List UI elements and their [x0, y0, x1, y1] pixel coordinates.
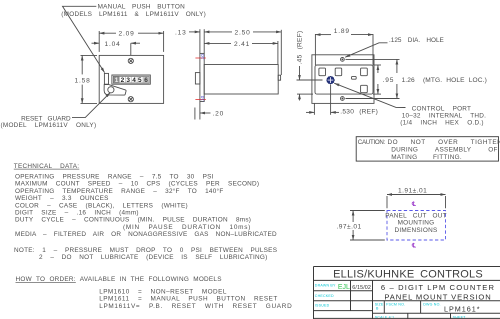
svg-text:MEDIA – FILTERED AIR OR NONAGG: MEDIA – FILTERED AIR OR NONAGGRESSIVE GA…: [15, 231, 277, 238]
svg-text:1.04: 1.04: [105, 41, 121, 48]
svg-text:B: B: [376, 306, 379, 310]
svg-text:DRAWN BY: DRAWN BY: [315, 284, 336, 288]
svg-text:6 – DIGIT LPM COUNTER: 6 – DIGIT LPM COUNTER: [381, 283, 495, 292]
svg-text:3: 3: [126, 77, 130, 84]
svg-text:.95: .95: [383, 77, 395, 84]
svg-text:COLOR – CASE (BLACK), LETTERS: COLOR – CASE (BLACK), LETTERS (WHITE): [15, 202, 188, 209]
svg-text:(1/4 INCH HEX O.D.): (1/4 INCH HEX O.D.): [400, 119, 483, 126]
svg-text:6/15/02: 6/15/02: [352, 285, 371, 291]
svg-text:MANUAL PUSH BUTTON: MANUAL PUSH BUTTON: [98, 4, 185, 11]
svg-text:DURING ASSEMBLY OF: DURING ASSEMBLY OF: [391, 146, 498, 153]
svg-text:OPERATING PRESSURE RANGE – 7.5: OPERATING PRESSURE RANGE – 7.5 TO 30 PSI: [15, 174, 214, 181]
svg-text:.125 DIA. HOLE: .125 DIA. HOLE: [389, 37, 444, 44]
svg-text:LPM1610 = NON–RESET MODEL: LPM1610 = NON–RESET MODEL: [99, 288, 227, 295]
svg-text:DIGIT SIZE – .16 INCH (4mm): DIGIT SIZE – .16 INCH (4mm): [15, 210, 139, 217]
svg-text:10–32 INTERNAL THD.: 10–32 INTERNAL THD.: [402, 112, 486, 119]
svg-text:2 – DO NOT LUBRICATE (DEVICE I: 2 – DO NOT LUBRICATE (DEVICE IS SELF LUB…: [39, 254, 267, 261]
svg-text:.13: .13: [175, 29, 187, 36]
svg-text:4: 4: [132, 77, 136, 84]
svg-text:PANEL CUT OUT: PANEL CUT OUT: [385, 213, 447, 220]
svg-text:1.89: 1.89: [334, 28, 350, 35]
svg-text:6: 6: [144, 77, 148, 84]
svg-text:MOUNTING: MOUNTING: [398, 220, 435, 227]
svg-text:TECHNICAL DATA:: TECHNICAL DATA:: [14, 163, 79, 170]
svg-text:(MIN PAUSE DURATION 10ms): (MIN PAUSE DURATION 10ms): [123, 224, 251, 231]
svg-text:2.09: 2.09: [119, 31, 135, 38]
svg-text:DUTY CYCLE – CONTINUOUS (MIN.: DUTY CYCLE – CONTINUOUS (MIN. PULSE DURA…: [15, 217, 251, 224]
svg-text:PANEL MOUNT VERSION: PANEL MOUNT VERSION: [384, 293, 491, 302]
svg-text:MATING FITTING.: MATING FITTING.: [391, 154, 462, 161]
svg-text:CHECKED: CHECKED: [315, 294, 334, 298]
svg-text:(MODELS LPM1611 & LPM1611V ONL: (MODELS LPM1611 & LPM1611V ONLY): [61, 11, 206, 18]
svg-text:ELLIS/KUHNKE CONTROLS: ELLIS/KUHNKE CONTROLS: [333, 269, 483, 281]
svg-text:WEIGHT – 3.3 OUNCES: WEIGHT – 3.3 OUNCES: [15, 195, 109, 202]
svg-text:FSCM NO.: FSCM NO.: [386, 302, 405, 306]
svg-text:LPM161*: LPM161*: [444, 304, 481, 313]
svg-text:LPM1611 = MANUAL PUSH BUTTON R: LPM1611 = MANUAL PUSH BUTTON RESET: [99, 296, 278, 303]
svg-text:2: 2: [121, 77, 125, 84]
svg-text:LPM1611V= P.B. RESET WITH RESE: LPM1611V= P.B. RESET WITH RESET GUARD: [99, 303, 292, 310]
svg-text:DWG NO.: DWG NO.: [423, 302, 441, 306]
svg-text:℄: ℄: [411, 201, 416, 208]
svg-text:MAXIMUM COUNT SPEED – 10 CPS (: MAXIMUM COUNT SPEED – 10 CPS (CYCLES PER…: [15, 181, 259, 188]
svg-text:CONTROL PORT: CONTROL PORT: [412, 105, 472, 112]
svg-text:ISSUED: ISSUED: [315, 303, 330, 307]
svg-text:.10: .10: [200, 54, 205, 61]
svg-text:℄: ℄: [411, 243, 416, 250]
svg-text:.530 (REF): .530 (REF): [340, 108, 378, 115]
svg-text:1.91±.01: 1.91±.01: [398, 187, 427, 194]
svg-text:(MODEL LPM1611V ONLY): (MODEL LPM1611V ONLY): [1, 122, 97, 129]
svg-text:2.41: 2.41: [234, 41, 250, 48]
svg-text:DO NOT OVER TIGHTEN: DO NOT OVER TIGHTEN: [388, 139, 500, 146]
svg-text:.10: .10: [200, 95, 205, 102]
svg-text:DIMENSIONS: DIMENSIONS: [395, 227, 438, 234]
svg-text:OPERATING TEMPERATURE RANGE –: OPERATING TEMPERATURE RANGE – 32°F TO 14…: [15, 187, 223, 195]
svg-text:1: 1: [115, 77, 119, 84]
svg-text:1.26 (MTG. HOLE LOC.): 1.26 (MTG. HOLE LOC.): [402, 77, 487, 84]
svg-text:2.50: 2.50: [235, 29, 251, 36]
svg-text:5: 5: [138, 77, 142, 84]
svg-text:.20: .20: [213, 111, 225, 118]
svg-text:NOTE: 1 – PRESSURE MUST DROP T: NOTE: 1 – PRESSURE MUST DROP TO 0 PSI BE…: [14, 247, 277, 254]
svg-text:HOW TO ORDER: AVAILABLE IN THE: HOW TO ORDER: AVAILABLE IN THE FOLLOWING…: [16, 276, 222, 283]
svg-text:EJL: EJL: [338, 284, 350, 291]
svg-text:.97±.01: .97±.01: [337, 224, 362, 231]
svg-text:1.58: 1.58: [75, 77, 91, 84]
svg-text:CAUTION:: CAUTION:: [358, 139, 386, 146]
svg-text:.45 (REF): .45 (REF): [297, 31, 304, 65]
